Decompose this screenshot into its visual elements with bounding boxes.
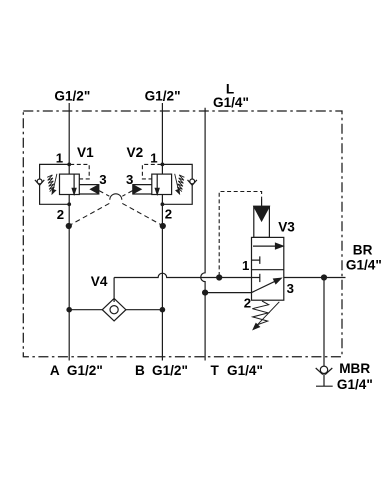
svg-text:G1/4": G1/4" [227, 363, 263, 378]
svg-text:2: 2 [165, 207, 172, 222]
wire: A line upper (top port to V1) [68, 103, 70, 174]
svg-text:B: B [135, 363, 145, 378]
wire: A line lower (V1 to port A) [68, 195, 70, 361]
MBR measuring coupling (ball check) [320, 366, 327, 373]
V1 pilot dashed line (port 1 to spring chamber) [70, 164, 89, 179]
svg-text:BR: BR [353, 242, 373, 257]
manifold boundary (dash-dot border) [23, 111, 342, 357]
svg-text:MBR: MBR [339, 361, 370, 376]
V1 check valve (ball and seat) [37, 179, 42, 184]
svg-text:3: 3 [287, 281, 294, 296]
V2 internal flow arrow (down) [156, 174, 158, 188]
svg-text:3: 3 [99, 172, 106, 187]
svg-text:T: T [211, 363, 220, 378]
node: port2 junction on T line [202, 290, 208, 296]
V4 node on B line [160, 307, 166, 313]
V3 top position flow arrow [253, 245, 277, 247]
svg-text:V3: V3 [278, 220, 295, 235]
wire: B line lower (V2 to port B) [161, 195, 163, 361]
node 1 of V1 [67, 163, 71, 167]
V3 closed port tick (bottom position, end of port 1 line) [259, 274, 261, 282]
cross pilot line V2 port3 to A line (dashed diagonal) [69, 191, 133, 226]
svg-text:1: 1 [242, 258, 249, 273]
svg-text:G1/4": G1/4" [346, 258, 382, 273]
svg-text:G1/2": G1/2" [54, 89, 90, 104]
V1 spring (adjustable) [47, 175, 54, 192]
valve V3 pilot dashed loop [219, 192, 261, 277]
node 2 of V1 [67, 202, 71, 206]
svg-text:G1/4": G1/4" [337, 377, 373, 392]
V2 bypass line with check valve [162, 164, 192, 204]
V3 spring (adjustable) [252, 301, 268, 325]
node 1 of V2 [161, 163, 165, 167]
V1 bypass line with check valve [40, 164, 70, 204]
svg-text:G1/2": G1/2" [152, 363, 188, 378]
V3 bottom position diagonal arrow [252, 281, 277, 293]
V2 port 3 pilot connector [133, 184, 152, 186]
V3 port 2 line to tank [205, 292, 251, 294]
MBR drop line [323, 278, 325, 367]
V2 spring (adjustable) [177, 175, 184, 192]
svg-text:2: 2 [57, 207, 64, 222]
node: pilot junction on outlet line [216, 274, 222, 280]
shuttle valve V4 inlet line from A [69, 309, 102, 311]
V4 outlet riser [113, 278, 115, 303]
svg-text:2: 2 [244, 296, 251, 311]
V3 pilot cap stem [261, 199, 263, 206]
svg-text:V2: V2 [127, 145, 144, 160]
V2 check valve (ball and seat) [190, 179, 195, 184]
valve V1 body [60, 174, 80, 194]
svg-text:A: A [50, 363, 60, 378]
shuttle valve V4 inlet line from B [126, 309, 162, 311]
V3 closed port tick (top position) [252, 256, 260, 264]
svg-text:G1/2": G1/2" [145, 89, 181, 104]
svg-text:G1/2": G1/2" [67, 363, 103, 378]
pilot node on B line [160, 223, 166, 229]
V3 pilot cap (narrow box with filled triangle) [254, 206, 270, 237]
V2 pilot dashed line (port 1 to spring chamber) [142, 164, 161, 179]
wire: L/T line with jump over horizontal pilot line [201, 108, 205, 361]
svg-text:V1: V1 [77, 145, 94, 160]
shuttle valve V4 (diamond with ball) [102, 299, 126, 321]
node 2 of V2 [161, 202, 165, 206]
V1 port 3 pilot connector [79, 184, 99, 186]
V3 body [252, 237, 284, 300]
V4 node on A line [66, 307, 72, 313]
V4 outlet horizontal with jump over B line [114, 273, 260, 277]
pilot line crossing bridge [110, 194, 122, 200]
V1 internal flow arrow (down) [73, 174, 75, 188]
pilot node on A line [66, 223, 72, 229]
node: BR junction [321, 274, 327, 280]
svg-text:1: 1 [56, 151, 63, 166]
V3 port 3 line to BR [284, 277, 346, 279]
svg-text:V4: V4 [91, 274, 108, 289]
svg-text:G1/4": G1/4" [213, 95, 249, 110]
svg-text:1: 1 [150, 151, 157, 166]
MBR stem and plug [316, 374, 333, 387]
cross pilot line V1 port3 to B line (dashed diagonal) [99, 191, 163, 226]
svg-text:3: 3 [126, 172, 133, 187]
wire: B line upper (top port to V2) [161, 103, 163, 174]
valve V2 body [152, 174, 172, 194]
